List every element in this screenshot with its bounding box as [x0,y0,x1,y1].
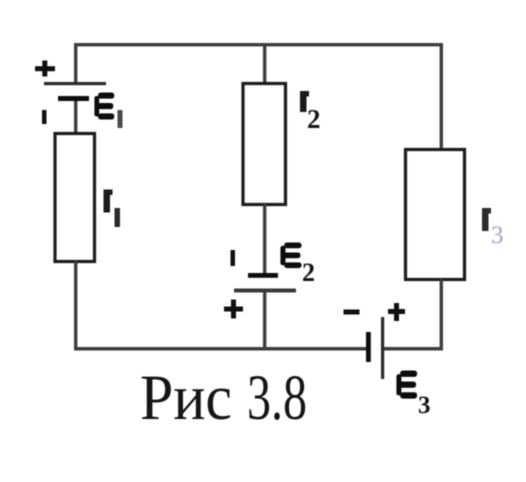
battery E1 plus sign [35,61,55,77]
label E1 (epsilon) [94,93,114,120]
label r2 [300,91,309,112]
battery E3 positive (long) plate [381,317,384,379]
label r3 [482,208,491,231]
battery E2 negative (short) plate [248,273,278,278]
svg-text:2: 2 [302,258,315,287]
wire bottom rail left segment [74,347,367,351]
label r1 subscript 1 [115,208,121,227]
battery E1 positive (long) plate [44,82,106,85]
label E1 subscript 1 [118,110,123,128]
battery E3 minus sign [344,310,360,315]
wire middle branch: top rail to resistor r2 [263,43,266,83]
wire right branch: top rail to resistor r3 [440,43,443,149]
svg-text:2: 2 [307,104,321,134]
wire bottom rail right segment [384,347,443,351]
svg-text:Рис3.8: Рис3.8 [140,363,307,434]
wire right branch: resistor r3 to bottom rail [440,279,443,350]
label E2 (epsilon) [280,242,301,268]
svg-text:3: 3 [491,222,504,249]
battery E2 positive (long) plate [234,289,296,293]
resistor r3 [406,150,465,280]
battery E1 negative (short) plate [58,96,89,101]
battery E3 plus sign [388,303,405,321]
wire middle branch: resistor r2 to battery E2 [263,204,266,273]
label r1 [104,190,113,213]
wire left branch: resistor r1 to bottom rail [74,261,77,349]
battery E2 plus sign [224,300,243,319]
wire middle branch: battery E2 to bottom rail [263,293,266,350]
battery E3 negative (short) plate [366,332,371,362]
wire left branch: battery E1 to resistor r1 [74,101,77,133]
resistor r2 [243,84,286,205]
svg-text:3: 3 [418,392,431,419]
label tick near battery E2 [231,250,236,266]
label E3 (epsilon) [396,371,417,399]
wire left branch: top rail to battery E1 [74,43,77,83]
resistor r1 [55,134,95,262]
label tick near battery E1 [42,110,47,124]
wire top rail [74,43,443,46]
